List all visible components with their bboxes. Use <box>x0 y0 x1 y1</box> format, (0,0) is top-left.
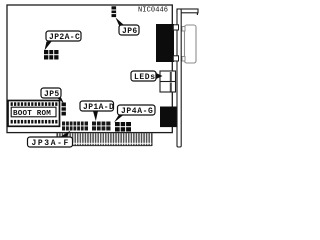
svg-text:JP5: JP5 <box>44 90 60 99</box>
label JP3A-F <box>28 131 73 149</box>
label JP1A-D <box>80 101 114 121</box>
edge connector fingers <box>57 133 152 146</box>
svg-text:JP4A-G: JP4A-G <box>121 107 153 116</box>
jumper block JP3A-F <box>62 122 88 131</box>
svg-text:JP6: JP6 <box>122 27 138 36</box>
svg-text:JP3A-F: JP3A-F <box>32 139 70 148</box>
DB-15 connector <box>182 25 196 63</box>
jumper block JP2A-C <box>44 50 59 60</box>
jumper JP5 <box>62 103 66 116</box>
BOOT ROM socket <box>8 101 60 127</box>
RJ-45 connector <box>160 107 177 128</box>
LED indicators <box>160 71 176 92</box>
svg-text:JP2A-C: JP2A-C <box>49 33 80 42</box>
jumper block JP4A-G <box>115 122 131 132</box>
mounting bracket <box>177 9 198 147</box>
part number NIC0446 <box>138 7 168 15</box>
svg-text:NIC0446: NIC0446 <box>138 7 168 15</box>
jackscrew tab bottom <box>173 56 178 61</box>
label JP6 <box>116 18 140 37</box>
jackscrew tab top <box>173 25 178 30</box>
svg-text:LEDs: LEDs <box>134 73 156 82</box>
svg-text:JP1A-D: JP1A-D <box>83 103 114 112</box>
jumper JP6 <box>112 6 117 17</box>
svg-text:BOOT ROM: BOOT ROM <box>13 110 51 118</box>
label LEDs <box>131 71 163 82</box>
AUI connector <box>156 24 174 62</box>
label JP2A-C <box>45 31 82 51</box>
board outline <box>7 5 172 133</box>
jumper block JP1A-D <box>92 122 111 131</box>
label JP5 <box>41 88 64 104</box>
label JP4A-G <box>114 105 155 123</box>
